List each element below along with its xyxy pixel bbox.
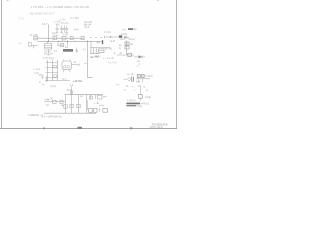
svg-text:4L-4: 4L-4 [85, 26, 90, 29]
row with diode: tick [104, 35, 106, 38]
capacitor C2 [60, 26, 63, 33]
box at left of branch [60, 100, 63, 104]
C6 bottom tail [139, 98, 141, 101]
bottom tick mark 1 [43, 128, 45, 130]
dark dash of net label [128, 28, 133, 30]
border frame left [1, 0, 3, 129]
svg-text:+: + [132, 85, 134, 88]
svg-text:4-7 (B): 4-7 (B) [70, 16, 79, 20]
svg-text:-w -: -w - [18, 42, 22, 45]
wire elbow right [87, 77, 92, 79]
svg-text:4L(w): 4L(w) [129, 38, 135, 41]
svg-text:4×4: 4×4 [74, 27, 79, 31]
svg-text:BL-DWG NO-14.7: BL-DWG NO-14.7 [31, 11, 56, 15]
wire down from bus at 91 [90, 41, 92, 47]
wire to diode [134, 56, 139, 58]
svg-text:–w– 4L: –w– 4L [126, 73, 135, 76]
boxes row: box 2 [93, 109, 97, 113]
bottom tick mark 2 [78, 127, 82, 129]
F2 X [141, 74, 144, 77]
ladder cell box 1 [54, 65, 57, 68]
wire under fuses [136, 78, 150, 80]
comp on stub [70, 91, 73, 94]
resistor ladder R5 [90, 48, 92, 54]
Q1 bottom stub [47, 49, 49, 56]
resistor R4 [81, 37, 84, 40]
svg-text:4L-4N: 4L-4N [105, 48, 112, 51]
diode CR1 blob [119, 35, 122, 37]
T1 winding circle 2 [67, 66, 70, 69]
long wire down from bus B [86, 41, 88, 77]
vert drop 1 [65, 95, 67, 114]
dark bar line 2 [126, 105, 136, 106]
small cap C5 [41, 77, 44, 79]
svg-text:4n: 4n [119, 47, 122, 50]
ladder switch S1 vertical 1 [47, 60, 49, 81]
squiggle under label [44, 54, 53, 55]
relay K2 wire vertical [126, 40, 128, 55]
arrow into branch [45, 98, 50, 100]
svg-text:4:: 4: [39, 81, 41, 84]
svg-text:o-4: o-4 [122, 27, 126, 31]
svg-text:1-4: 1-4 [70, 84, 74, 87]
resistor ladder R7 [95, 48, 97, 54]
input connector box [28, 43, 31, 47]
border frame bottom [0, 128, 177, 130]
T1 top lead 1 [63, 59, 65, 61]
tail drop 2 [94, 95, 96, 99]
K2 X [125, 42, 129, 45]
fuse F1 [137, 74, 140, 77]
Q2 X mark [61, 44, 64, 47]
T1 bottom lead 1 [63, 70, 65, 73]
F1 X [137, 74, 140, 77]
net label tail [133, 28, 136, 30]
top tick mark 2 [157, 0, 158, 1]
bus A right segment marks [90, 36, 102, 38]
junction dot 2 [67, 41, 68, 42]
svg-text:N–: N– [126, 85, 130, 88]
svg-text:1-4w: 1-4w [60, 19, 65, 22]
svg-text:A4.7%: A4.7% [90, 55, 99, 59]
bus wire B [38, 40, 104, 42]
transformer T1 body [62, 61, 72, 70]
svg-text:4 (MELW) –4: 4 (MELW) –4 [28, 114, 43, 117]
mark under label [124, 36, 126, 38]
svg-text:+1470s: +1470s [73, 79, 83, 83]
T1 top lead 2 [69, 59, 71, 61]
svg-text:4 (4P) 4: 4 (4P) 4 [127, 100, 136, 103]
transistor Q1 internal line 2 [45, 46, 52, 48]
svg-text:47: 47 [46, 104, 49, 107]
row junction dot [110, 36, 111, 37]
svg-text:w4–: w4– [103, 96, 108, 99]
svg-text:-4-: -4- [113, 52, 116, 55]
relay K2 box upper [125, 42, 129, 45]
svg-text:( –4w): ( –4w) [33, 68, 40, 71]
ground G2 [75, 48, 78, 53]
ground under box [61, 104, 63, 106]
ladder cell box 2 [54, 75, 57, 77]
vertical at left of rail cluster [87, 100, 89, 110]
svg-text:4.1: 4.1 [83, 48, 87, 51]
tick on long wire [84, 63, 87, 65]
comp box on drop 2 [70, 104, 73, 107]
wire bus B into Q1 [47, 41, 49, 43]
svg-text:2.1: 2.1 [63, 78, 67, 81]
ladder switch S1 vertical 2 [52, 60, 54, 81]
svg-text:4n: 4n [42, 84, 45, 87]
wire Q2 top [67, 41, 69, 46]
svg-text:4n: 4n [65, 46, 68, 49]
svg-text:4 - 4 w 4L: 4 - 4 w 4L [103, 57, 115, 60]
svg-text:B.4 + (MFWM) 4w: B.4 + (MFWM) 4w [42, 115, 62, 118]
junction dot 2b [58, 41, 59, 42]
svg-text:4-41: 4-41 [63, 33, 69, 36]
junction dot 3 [87, 41, 88, 42]
ground stub [33, 46, 35, 49]
relay K1 box [99, 49, 104, 53]
relay K2 box lower [125, 46, 129, 49]
part label bar NO(8.2uF) [63, 49, 73, 52]
svg-text:L4(w): L4(w) [121, 33, 127, 36]
boxes row: box 3 [103, 109, 108, 113]
svg-text:w: w [124, 88, 126, 91]
junction dot 2c [61, 41, 62, 42]
svg-text:4 | 4w: 4 | 4w [104, 31, 111, 34]
svg-text:w4w: w4w [120, 38, 125, 41]
tick under plus [136, 65, 138, 67]
wire down F2 [142, 79, 144, 83]
junction X mark [120, 52, 122, 54]
fuse F2 [141, 74, 144, 77]
boxes row on rail: box 1 [89, 109, 93, 113]
svg-text:F=4(4): F=4(4) [146, 75, 153, 78]
svg-text:4w: 4w [80, 95, 83, 98]
bottom mid bus [65, 94, 104, 96]
wire lower right [117, 54, 134, 56]
vert drop 3 [78, 95, 80, 114]
svg-text:· ·· ·: · ·· · [20, 35, 25, 38]
ground bus under ladder [90, 53, 100, 55]
border frame right [176, 0, 178, 129]
mid right terminal circle [124, 78, 131, 81]
bus wire A [34, 37, 85, 39]
comp box on branch [53, 100, 57, 103]
ladder rung 1 [46, 62, 58, 64]
capacitor C3 [63, 26, 66, 33]
svg-text:4% 4%: 4% 4% [61, 22, 69, 25]
tail box 2 [97, 95, 102, 99]
svg-text:4w 4 w4: 4w 4 w4 [108, 62, 117, 65]
ladder rung 2 [46, 67, 58, 69]
box on wire [128, 53, 132, 56]
dash mark [99, 104, 104, 106]
svg-text:(n: (n [146, 89, 149, 92]
mid bus right tail: drop [90, 95, 92, 99]
wire main vertical feed [48, 25, 50, 42]
capacitor C6 [139, 95, 143, 99]
left branch wire [44, 101, 66, 103]
svg-text::4:: :4: [138, 63, 141, 66]
dark bar line 1 [126, 103, 140, 105]
wire down F1 [138, 79, 140, 83]
wire Q2 left [57, 44, 61, 46]
ladder rung 3 [46, 72, 58, 74]
T1 output terminal [78, 64, 80, 66]
comp box on drop 3 [77, 104, 80, 107]
top tick mark [7, 0, 8, 1]
svg-text:4w: 4w [97, 41, 100, 44]
resistor R1 [34, 37, 38, 40]
svg-text:(4w4): (4w4) [50, 85, 56, 88]
svg-text:1N4: 1N4 [39, 74, 44, 77]
ground under tail box [97, 101, 99, 104]
svg-text:4(.)w: 4(.)w [49, 57, 55, 60]
T1 winding circle 1 [64, 66, 67, 69]
input stub wire [31, 45, 37, 47]
boxes row: tick [99, 108, 101, 111]
row wire [105, 36, 118, 38]
bus wire C [90, 47, 110, 49]
svg-text:4w: 4w [116, 83, 119, 86]
terminal bars [132, 76, 134, 82]
svg-text:4w: 4w [138, 85, 141, 88]
tail box 1 [90, 96, 93, 99]
capacitor C1 [56, 26, 59, 33]
small comp stack [45, 76, 48, 82]
capacitor C4 [65, 27, 68, 33]
junction dot 2d [74, 41, 75, 42]
vert drop 2 [71, 95, 73, 114]
svg-text:4n4: 4n4 [136, 80, 141, 83]
resistor ladder R6 [93, 48, 95, 54]
resistor R9 on bus A [70, 37, 73, 40]
resistor R2 [53, 37, 56, 40]
svg-text:o4: o4 [74, 61, 77, 64]
transistor Q1 box [45, 43, 52, 49]
x mark above branch [51, 97, 53, 99]
connector J2 bar [102, 40, 103, 44]
svg-text:+: + [94, 102, 96, 105]
svg-text:L4-B: L4-B [110, 40, 116, 43]
comp box on drop 1 [64, 105, 67, 108]
diode CR2 bar and wire [141, 55, 143, 58]
bottom rail of T1 area [46, 80, 70, 82]
svg-text:4w: 4w [130, 43, 133, 46]
transistor Q1 internal line [45, 44, 52, 46]
svg-text:14.7: 14.7 [42, 22, 48, 26]
bottom horizontal rail [44, 112, 96, 114]
bottom tick mark 3 [130, 127, 132, 129]
wire down right column [139, 87, 141, 95]
svg-text:TP-1: TP-1 [18, 16, 25, 20]
cap C7 top stub [71, 86, 73, 94]
svg-text:14.65: 14.65 [44, 49, 51, 53]
connector P1 tick [84, 24, 88, 26]
svg-text:4w: 4w [54, 50, 57, 53]
ladder switch S1 vertical 3 [57, 60, 59, 81]
svg-text:4%: 4% [56, 23, 60, 26]
transistor Q2 box [61, 44, 64, 47]
T1 bottom lead 2 [69, 70, 71, 73]
ladder rung 4 [48, 77, 58, 79]
vert drop 4 [86, 95, 88, 114]
K1 inner mark [99, 50, 104, 52]
diode CR2 [139, 55, 142, 58]
svg-text:1 TP 1B1 – L.O. MIXER AMPL 7.5: 1 TP 1B1 – L.O. MIXER AMPL 7.5V RCVR [31, 5, 90, 9]
svg-text:4w(4): 4w(4) [145, 96, 151, 99]
wire down at x58 [57, 41, 59, 45]
resistor R3 [62, 37, 66, 40]
svg-text:-4(4): -4(4) [137, 105, 142, 108]
svg-text:4·4L: 4·4L [53, 33, 59, 37]
junction dot 1 [48, 41, 49, 42]
svg-text:+: + [134, 89, 136, 92]
svg-text:(4PR) (4w-4): (4PR) (4w-4) [150, 126, 164, 129]
T1 output wire [72, 64, 78, 66]
